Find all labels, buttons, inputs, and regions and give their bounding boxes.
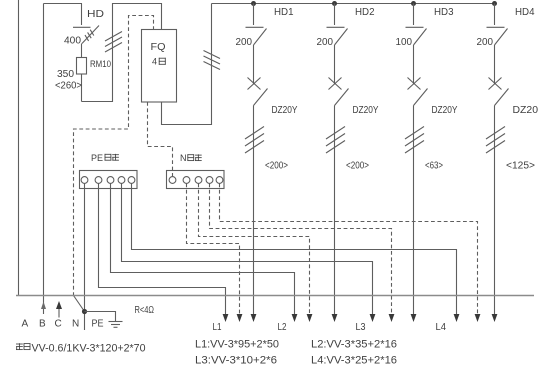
- svg-text:FQ: FQ: [151, 42, 166, 53]
- svg-text:L1:VV-3*95+2*50: L1:VV-3*95+2*50: [195, 339, 279, 351]
- svg-text:HD1: HD1: [274, 6, 294, 18]
- svg-text:<125>: <125>: [506, 161, 535, 172]
- svg-text:C: C: [55, 319, 62, 330]
- svg-text:L3: L3: [356, 322, 366, 333]
- svg-text:L4: L4: [436, 322, 447, 333]
- svg-text:L2:VV-3*35+2*16: L2:VV-3*35+2*16: [311, 339, 397, 351]
- svg-text:400: 400: [64, 36, 81, 47]
- svg-text:<260>: <260>: [55, 81, 82, 92]
- svg-text:DZ20: DZ20: [513, 105, 539, 116]
- svg-text:L3:VV-3*10+2*6: L3:VV-3*10+2*6: [195, 355, 277, 367]
- svg-text:HD: HD: [87, 9, 104, 20]
- svg-text:<200>: <200>: [346, 161, 369, 172]
- svg-text:DZ20Y: DZ20Y: [432, 105, 458, 116]
- svg-text:L2: L2: [278, 322, 287, 333]
- svg-text:VV-0.6/1KV-3*120+2*70: VV-0.6/1KV-3*120+2*70: [32, 343, 146, 355]
- svg-text:HD4: HD4: [515, 6, 535, 18]
- svg-text:200: 200: [477, 37, 494, 48]
- svg-text:L1: L1: [213, 322, 222, 333]
- svg-text:<200>: <200>: [265, 161, 288, 172]
- svg-text:200: 200: [236, 37, 253, 48]
- svg-text:PE: PE: [92, 319, 104, 330]
- svg-text:N: N: [72, 319, 79, 330]
- svg-text:PE: PE: [91, 153, 103, 163]
- svg-text:N: N: [180, 153, 187, 163]
- svg-text:HD2: HD2: [355, 6, 375, 18]
- svg-text:DZ20Y: DZ20Y: [272, 105, 298, 116]
- svg-text:R<4Ω: R<4Ω: [135, 305, 155, 316]
- svg-text:A: A: [22, 319, 29, 330]
- svg-text:RM10: RM10: [90, 59, 111, 70]
- svg-text:L4:VV-3*25+2*16: L4:VV-3*25+2*16: [311, 355, 397, 367]
- svg-text:<63>: <63>: [425, 161, 443, 172]
- svg-text:200: 200: [317, 37, 334, 48]
- svg-text:100: 100: [396, 37, 413, 48]
- svg-text:B: B: [39, 319, 46, 330]
- svg-text:350: 350: [57, 69, 74, 80]
- svg-text:DZ20Y: DZ20Y: [353, 105, 379, 116]
- svg-text:4: 4: [152, 57, 157, 67]
- svg-text:HD3: HD3: [434, 6, 454, 18]
